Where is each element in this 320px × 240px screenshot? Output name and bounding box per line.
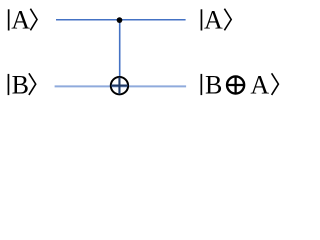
svg-text:A: A: [204, 5, 223, 34]
ket label |B⟩ input bottom: [8, 71, 36, 100]
CNOT target X gate on qubit B: [111, 77, 128, 94]
wire vertical CNOT link: [119, 20, 121, 94]
wire top (qubit A): [56, 19, 186, 21]
wire bottom (qubit B): [55, 85, 187, 87]
ket label |B ⊕ A⟩ output bottom: [201, 71, 279, 100]
svg-text:B: B: [12, 71, 29, 100]
svg-text:A: A: [11, 5, 30, 34]
control dot on qubit A: [117, 17, 123, 23]
ket label |A⟩ input top: [8, 5, 37, 34]
ket label |A⟩ output top: [201, 5, 232, 34]
svg-text:B: B: [205, 71, 222, 100]
svg-text:A: A: [250, 71, 269, 100]
